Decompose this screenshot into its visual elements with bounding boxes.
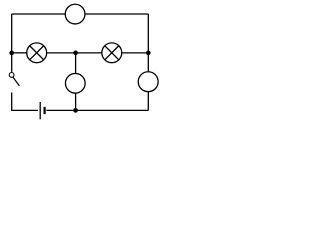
lamp L2 cross [105,46,119,60]
wire top-left segment [12,13,66,15]
wire middle center (lamp L1 to lamp L2) [47,52,102,54]
wire left lower (switch to bottom corner) [11,93,13,111]
node junction dot center [73,51,78,56]
node junction dot left [9,51,14,56]
wire right upper (top corner down to meter M3) [147,14,149,72]
lamp L1 cross [30,46,44,60]
wire left upper (top corner down to switch) [11,14,13,72]
meter M2 (middle circle) [65,73,85,93]
lamp L1 circle [27,43,47,63]
meter M1 (top circle) [65,4,85,24]
wire middle left (node to lamp L1) [12,52,27,54]
wire branch upper (node down to meter M2) [75,53,77,74]
wire top-right segment [85,13,148,15]
battery B1 positive plate (long) [39,102,41,119]
battery B1 negative plate (short thick) [43,107,45,114]
node junction dot bottom [73,108,78,113]
meter M3 (right circle) [138,72,158,92]
wire bottom-left segment [11,109,38,111]
node junction dot right [146,51,151,56]
wire middle right (lamp L2 to node) [122,52,149,54]
wire branch lower (meter M2 to bottom node) [75,93,77,110]
switch S1 (open) pivot circle [9,73,14,78]
switch S1 blade [13,77,20,86]
lamp L2 circle [102,43,122,63]
wire bottom-right segment [46,109,148,111]
wire right lower (meter M3 to bottom corner) [147,92,149,111]
